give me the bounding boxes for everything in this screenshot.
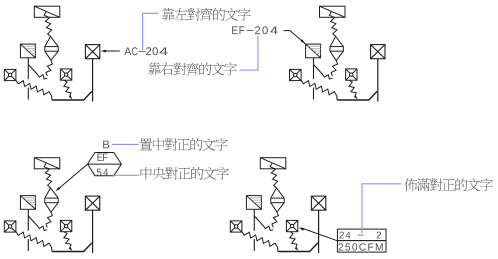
label middle-aligned-text [141,167,229,180]
label EF-204 [232,26,277,34]
label middle-center-text [139,138,227,151]
label 54 [97,169,108,177]
flex duct Bb [331,61,338,77]
ceiling diffuser B2 [346,69,357,80]
equipment tag hexagon EF-54 [88,153,122,176]
flex duct Db [272,212,279,228]
main duct run C [52,243,92,252]
flex duct Da [270,163,278,188]
flex duct Ab [46,61,53,77]
inline damper B [330,36,343,60]
duct centerline B [313,58,315,79]
flex duct Ca [44,163,52,188]
duct centerline C [27,209,29,230]
supply air box A [34,6,60,17]
ceiling diffuser B1 [290,69,302,80]
airflow tag box 24-2 / 250CFM [337,229,386,252]
leader arrow tag box [301,228,337,241]
branch line B [314,65,323,75]
flex duct Cb [46,212,53,228]
flex duct Cd [64,232,71,248]
branch line A [28,65,37,75]
leader arrow hexagon [58,164,88,189]
flex duct Ac [16,80,51,95]
leader blue right-align [240,35,258,70]
label 250CFM [339,243,383,250]
flex duct Cc [16,232,51,247]
ceiling diffuser C1 [4,221,16,232]
flex duct Ad [64,80,71,96]
supply air box C [34,158,60,169]
leader blue left-align [143,13,159,50]
label B [103,141,109,149]
main duct run B [337,91,377,100]
supply air box D [260,158,286,169]
leader blue middle-center [112,143,139,145]
ceiling diffuser A1 [4,69,16,80]
main duct run D [278,243,318,252]
flex duct Ba [329,12,337,37]
hatched register box A [20,44,35,58]
ceiling diffuser C2 [60,220,71,231]
leader arrow EF-204 [284,31,306,44]
exhaust grille box D [311,196,325,210]
exhaust grille box C [85,196,99,210]
label AC-204 [124,47,168,55]
leader blue fit-align [362,184,402,234]
flex duct Aa [44,12,52,37]
supply air box B [320,6,346,17]
leader arrow AC-204 [105,50,120,52]
ceiling diffuser D1 [230,221,242,232]
duct centerline D [253,209,255,230]
branch line C [28,216,37,226]
flex duct Dd [290,232,297,248]
main duct run A [52,91,92,100]
ceiling diffuser D2 [286,220,297,231]
leader blue middle-align [113,174,139,176]
label left-aligned-text [162,8,250,21]
hatched register box C [20,196,35,210]
hatched register box B [306,44,321,58]
label 24-2 [339,232,381,239]
duct centerline A [27,58,29,79]
flex duct Bd [349,80,356,96]
label fit-aligned-text [404,178,492,191]
inline damper C [45,188,58,212]
flex duct Bc [301,80,336,95]
label EF [98,154,108,161]
exhaust grille box A [85,45,99,59]
branch line D [254,216,263,226]
inline damper D [271,188,284,212]
label right-aligned-text [148,62,236,75]
ceiling diffuser A2 [60,69,71,80]
inline damper A [45,36,58,60]
exhaust grille box B [371,45,385,59]
flex duct Dc [242,232,277,247]
hatched register box D [246,196,261,210]
